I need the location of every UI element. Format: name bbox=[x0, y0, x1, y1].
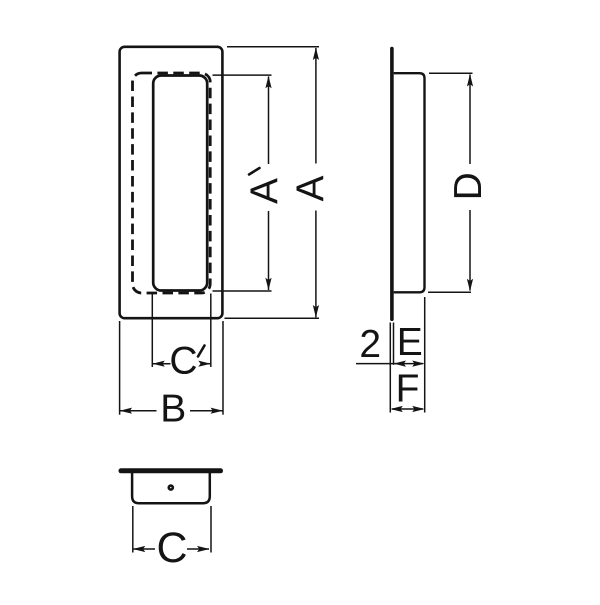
bottom view cup outline bbox=[132, 471, 210, 504]
extension line A bottom bbox=[225, 317, 320, 319]
leader line for thickness 2 bbox=[356, 363, 396, 365]
dimension line A bbox=[313, 48, 319, 318]
svg-text:D: D bbox=[447, 172, 490, 200]
svg-text:F: F bbox=[396, 368, 420, 411]
svg-text:A: A bbox=[290, 175, 333, 201]
bottom view screw hole bbox=[169, 486, 173, 490]
dimension line C with outward arrows bbox=[133, 546, 210, 552]
front view outer plate rectangle bbox=[120, 47, 223, 318]
svg-text:C: C bbox=[169, 340, 197, 383]
extension line plate-left below side view bbox=[389, 323, 391, 413]
svg-text:C: C bbox=[156, 524, 187, 572]
svg-text:E: E bbox=[397, 321, 423, 364]
dimension line C' with outward arrows bbox=[152, 361, 211, 367]
dimension line E with outward arrows bbox=[394, 361, 425, 367]
side view plate edge (thick line) bbox=[390, 49, 394, 320]
side view cup body outline bbox=[394, 73, 425, 292]
front view hidden cup outline (dashed) bbox=[133, 73, 211, 293]
extension line C left bbox=[132, 506, 134, 553]
extension line C right bbox=[210, 506, 212, 553]
svg-text:2: 2 bbox=[359, 323, 381, 366]
extension line C' left bbox=[151, 292, 153, 367]
extension line C' right bbox=[210, 294, 212, 368]
svg-text:A: A bbox=[243, 178, 286, 204]
extension line A' top bbox=[213, 74, 272, 76]
extension line plate-right below side view bbox=[393, 323, 395, 365]
extension line D top bbox=[429, 72, 473, 74]
extension line A' bottom bbox=[213, 290, 272, 292]
extension line B right bbox=[222, 321, 224, 415]
bottom view plate bar (thick) bbox=[121, 468, 221, 473]
front view recess opening (solid) bbox=[153, 76, 207, 291]
extension line cup-right below side view bbox=[424, 297, 426, 413]
svg-text:B: B bbox=[160, 387, 186, 430]
extension line B left bbox=[119, 321, 121, 415]
dimension line B with outward arrows bbox=[120, 408, 223, 414]
dimension line A' bbox=[265, 76, 271, 290]
extension line D bottom bbox=[428, 291, 471, 293]
extension line A top bbox=[227, 46, 319, 48]
dimension line D bbox=[467, 74, 473, 291]
dimension line F with outward arrows bbox=[390, 406, 424, 412]
